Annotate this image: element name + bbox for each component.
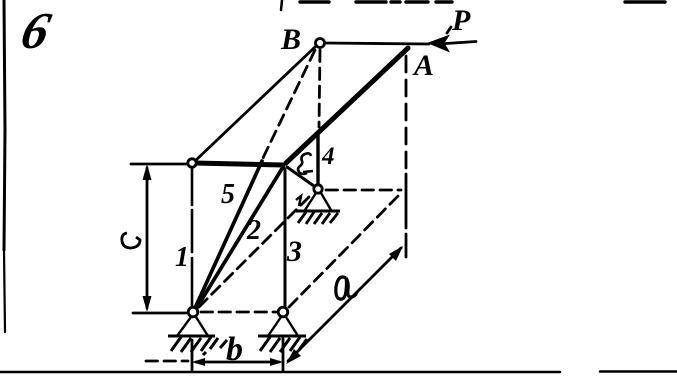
svg-text:P: P <box>451 4 471 37</box>
svg-text:b: b <box>226 331 243 368</box>
svg-text:A: A <box>412 49 434 82</box>
svg-text:2: 2 <box>246 215 261 246</box>
svg-text:3: 3 <box>286 235 302 268</box>
svg-text:4: 4 <box>321 143 335 170</box>
svg-text:5: 5 <box>221 179 235 210</box>
svg-text:B: B <box>280 23 301 56</box>
svg-text:1: 1 <box>175 242 189 273</box>
svg-text:6: 6 <box>16 3 57 60</box>
